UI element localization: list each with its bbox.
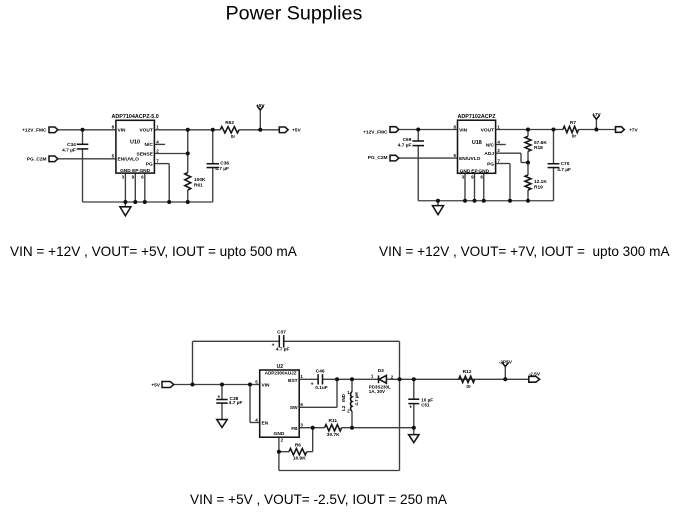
svg-text:C69: C69 bbox=[403, 137, 412, 143]
svg-text:EP: EP bbox=[132, 168, 139, 174]
svg-text:VIN: VIN bbox=[459, 127, 468, 133]
svg-text:+12V_FMC: +12V_FMC bbox=[22, 128, 47, 134]
svg-text:R6: R6 bbox=[295, 442, 301, 448]
svg-text:N/C: N/C bbox=[145, 142, 154, 148]
svg-text:4.7 µF: 4.7 µF bbox=[276, 347, 290, 353]
svg-text:GND: GND bbox=[120, 168, 131, 174]
svg-text:-2.5V: -2.5V bbox=[529, 371, 541, 377]
svg-text:+5V: +5V bbox=[151, 382, 160, 388]
svg-text:0r: 0r bbox=[572, 134, 577, 140]
svg-text:VIN = +12V , VOUT= +7V, IOUT =: VIN = +12V , VOUT= +7V, IOUT = upto 300 … bbox=[379, 244, 670, 259]
svg-text:VIN = +5V , VOUT= -2.5V, IOUT: VIN = +5V , VOUT= -2.5V, IOUT = 250 mA bbox=[190, 492, 448, 507]
svg-text:U18: U18 bbox=[472, 140, 482, 146]
svg-text:C46: C46 bbox=[316, 368, 325, 374]
svg-text:EP: EP bbox=[471, 168, 478, 174]
svg-text:R7: R7 bbox=[570, 120, 576, 126]
svg-text:EN: EN bbox=[262, 420, 269, 426]
svg-text:30.7K: 30.7K bbox=[327, 432, 340, 438]
svg-text:GND: GND bbox=[478, 168, 489, 174]
svg-text:PG_C2M: PG_C2M bbox=[27, 157, 47, 163]
svg-text:1A, 30V: 1A, 30V bbox=[369, 389, 385, 394]
svg-text:VIN: VIN bbox=[262, 382, 271, 388]
svg-text:D3: D3 bbox=[378, 368, 384, 374]
svg-text:SENSE: SENSE bbox=[137, 151, 154, 157]
svg-text:R62: R62 bbox=[225, 120, 234, 126]
svg-text:ADP7104ACPZ-5.0: ADP7104ACPZ-5.0 bbox=[111, 114, 158, 120]
svg-text:R18: R18 bbox=[534, 145, 543, 151]
svg-text:L2: L2 bbox=[341, 405, 346, 411]
svg-text:12.1K: 12.1K bbox=[534, 179, 547, 185]
svg-text:+12V_FMC: +12V_FMC bbox=[363, 129, 388, 135]
svg-text:+5V: +5V bbox=[292, 128, 301, 134]
svg-text:57.6K: 57.6K bbox=[534, 140, 547, 146]
svg-text:VIN: VIN bbox=[118, 128, 127, 134]
svg-text:PG_C2M: PG_C2M bbox=[368, 155, 388, 161]
svg-text:GND: GND bbox=[274, 431, 285, 437]
svg-text:R12: R12 bbox=[463, 369, 472, 375]
svg-text:4.7 µF: 4.7 µF bbox=[229, 400, 243, 406]
svg-text:100K: 100K bbox=[194, 177, 206, 183]
svg-text:R61: R61 bbox=[194, 182, 203, 188]
svg-text:ADP7102ACPZ: ADP7102ACPZ bbox=[458, 114, 497, 120]
svg-text:0r: 0r bbox=[466, 384, 471, 390]
svg-text:R11: R11 bbox=[329, 418, 338, 424]
svg-text:VOUT: VOUT bbox=[139, 128, 152, 134]
svg-text:C70: C70 bbox=[561, 161, 570, 167]
svg-text:ADJ: ADJ bbox=[484, 151, 494, 157]
svg-text:4.7 µF: 4.7 µF bbox=[215, 166, 229, 172]
svg-text:+: + bbox=[272, 343, 275, 349]
svg-text:+7V: +7V bbox=[629, 127, 638, 133]
svg-text:0.1uF: 0.1uF bbox=[315, 385, 328, 391]
svg-text:ADP2300AUJZ: ADP2300AUJZ bbox=[265, 370, 297, 375]
svg-text:VIN = +12V , VOUT= +5V, IOUT =: VIN = +12V , VOUT= +5V, IOUT = upto 500 … bbox=[10, 244, 298, 259]
svg-text:4.7 µH: 4.7 µH bbox=[354, 392, 359, 405]
svg-text:Power Supplies: Power Supplies bbox=[226, 3, 363, 25]
svg-text:+: + bbox=[409, 404, 412, 410]
svg-text:U2: U2 bbox=[277, 364, 284, 370]
svg-text:IND: IND bbox=[341, 393, 346, 402]
svg-text:+: + bbox=[311, 382, 314, 388]
svg-text:+: + bbox=[217, 394, 220, 400]
svg-text:EN/UVLO: EN/UVLO bbox=[118, 157, 140, 163]
svg-text:VOUT: VOUT bbox=[481, 127, 494, 133]
svg-text:SW: SW bbox=[290, 405, 298, 411]
svg-text:N/C: N/C bbox=[486, 142, 495, 148]
svg-text:BST: BST bbox=[288, 378, 298, 384]
svg-text:C36: C36 bbox=[220, 161, 229, 167]
svg-text:C37: C37 bbox=[277, 329, 286, 335]
svg-text:EN/UVLO: EN/UVLO bbox=[459, 156, 481, 162]
svg-text:U10: U10 bbox=[130, 140, 140, 146]
svg-text:PG: PG bbox=[146, 161, 153, 167]
svg-text:C34: C34 bbox=[67, 142, 76, 148]
svg-text:C51: C51 bbox=[421, 402, 430, 407]
svg-text:+5V: +5V bbox=[256, 103, 265, 109]
svg-text:4.7 µF: 4.7 µF bbox=[62, 147, 76, 153]
svg-text:GND: GND bbox=[139, 168, 150, 174]
svg-text:0r: 0r bbox=[231, 134, 236, 140]
svg-text:FB: FB bbox=[291, 426, 298, 432]
svg-text:4.7 µF: 4.7 µF bbox=[557, 167, 571, 173]
svg-text:-2P5V: -2P5V bbox=[499, 359, 513, 365]
svg-text:16.9K: 16.9K bbox=[293, 455, 306, 461]
svg-text:GND: GND bbox=[460, 168, 471, 174]
svg-text:R19: R19 bbox=[534, 184, 543, 190]
svg-text:4.7 µF: 4.7 µF bbox=[398, 143, 412, 149]
svg-text:+7V: +7V bbox=[592, 112, 601, 118]
svg-text:PG: PG bbox=[487, 161, 494, 167]
